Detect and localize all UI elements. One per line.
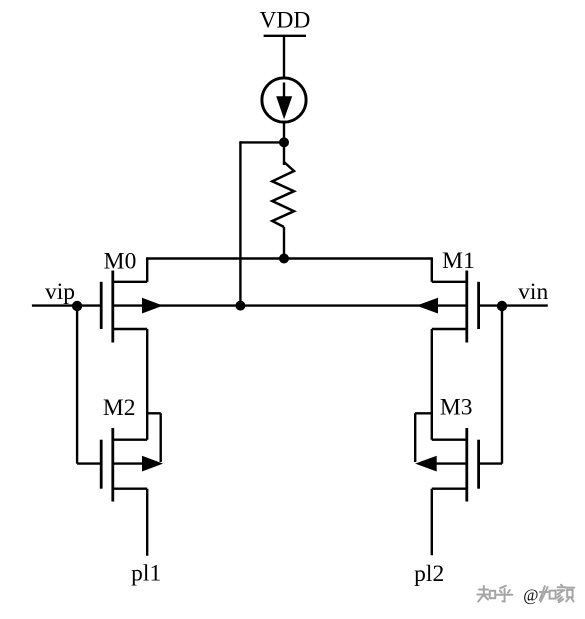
svg-text:pl1: pl1 [131, 561, 161, 587]
svg-text:M2: M2 [103, 395, 136, 421]
svg-text:vin: vin [518, 279, 548, 305]
svg-text:M1: M1 [442, 248, 475, 274]
svg-text:M3: M3 [440, 395, 473, 421]
svg-text:vip: vip [45, 279, 75, 305]
svg-text:@: @ [523, 586, 538, 605]
svg-text:pl2: pl2 [414, 561, 444, 587]
svg-text:VDD: VDD [259, 8, 310, 34]
svg-text:M0: M0 [104, 249, 137, 275]
